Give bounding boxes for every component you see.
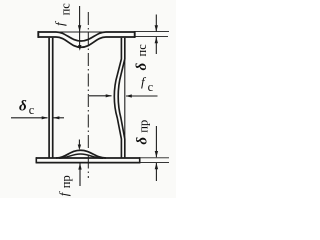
svg-text:пр: пр [59, 175, 73, 188]
arrowhead f_pr up [78, 163, 81, 170]
arrowhead delta_pr down [155, 151, 158, 157]
arrowhead f_pc down [78, 25, 81, 32]
centerline dash-dot [87, 12, 89, 178]
top plate top surface (thick segments) [38, 31, 135, 33]
bottom plate bottom surface [36, 162, 140, 164]
right wall right surface (bulged) [118, 38, 125, 158]
dim delta_c right line [54, 117, 65, 119]
svg-text:пр: пр [136, 120, 150, 133]
dim f_pr upper line [78, 140, 80, 145]
dim delta_pc upper line [155, 15, 157, 32]
top dip upper curve [56, 32, 106, 41]
bottom plate top surface [36, 157, 140, 159]
bottom plate extension lines right [140, 158, 169, 163]
svg-text:δ: δ [19, 99, 27, 115]
svg-text:f: f [56, 190, 71, 196]
svg-text:с: с [29, 103, 35, 117]
arrowhead delta_c right [42, 116, 48, 119]
svg-text:пс: пс [135, 44, 149, 57]
dim delta_c left line [11, 117, 48, 119]
top plate left end cap [37, 31, 39, 38]
arrowhead delta_pc up [155, 37, 158, 43]
dim delta_pr upper line [155, 126, 157, 157]
svg-text:δ: δ [135, 137, 151, 145]
top plate bottom surface [38, 36, 135, 38]
bottom arch upper curve [56, 150, 106, 158]
svg-text:f: f [141, 74, 147, 89]
bottom plate right end cap [139, 157, 141, 163]
bottom arch lower curve [59, 154, 103, 158]
right wall left surface (bulged) [114, 38, 121, 158]
top plate extension lines right [135, 32, 169, 37]
svg-text:δ: δ [134, 63, 150, 71]
arrowhead delta_pc down [155, 25, 158, 31]
svg-text:пс: пс [59, 3, 73, 16]
left wall [49, 38, 53, 158]
right wall nominal line [124, 60, 126, 139]
top dip lower curve [56, 37, 106, 47]
top plate nominal line across dip [56, 31, 106, 33]
arrowhead delta_c left [53, 116, 59, 119]
arrowhead f_pr down [78, 145, 81, 151]
dim delta_pc lower tail [155, 37, 157, 54]
dim f_pc upper line [79, 6, 81, 45]
svg-text:f: f [52, 20, 67, 26]
arrowhead f_c right [106, 94, 112, 97]
arrowhead f_c left [126, 94, 132, 97]
bottom plate left end cap [35, 157, 37, 163]
arrowhead f_pc up [78, 45, 81, 51]
dim f_pr lower tail [79, 163, 81, 186]
arrowhead delta_pr up [155, 163, 158, 169]
dim delta_pr lower tail [155, 163, 157, 181]
top plate right end cap [134, 31, 136, 38]
dim f_c left line [89, 95, 112, 97]
dim f_c right line [126, 95, 158, 97]
svg-text:с: с [148, 80, 154, 94]
